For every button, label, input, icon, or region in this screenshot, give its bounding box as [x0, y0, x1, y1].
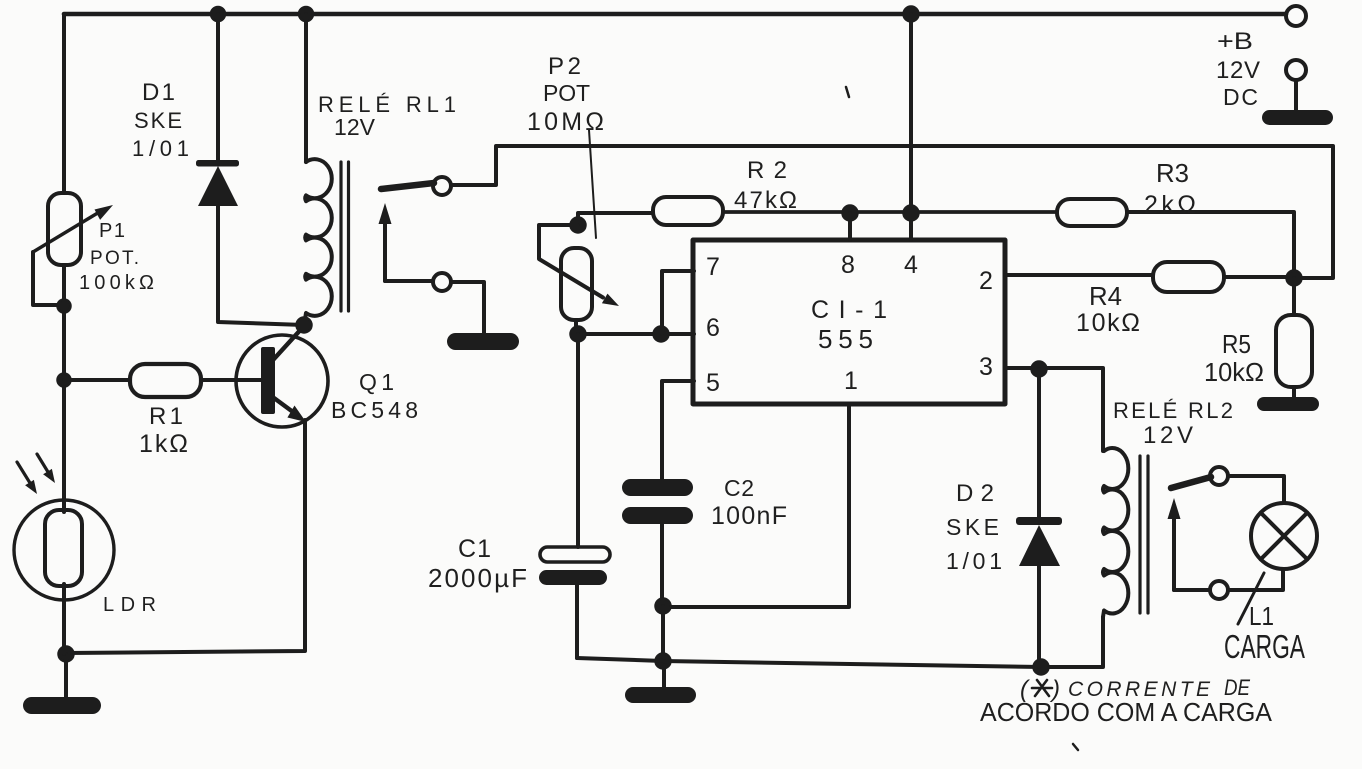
svg-text:2kΩ: 2kΩ: [1144, 191, 1196, 219]
wire P2 bottom to C1: [576, 334, 580, 547]
capacitor C1 top plate: [540, 547, 610, 562]
node emitter/LDR junction: [59, 647, 74, 662]
wire top +12V rail: [64, 12, 1286, 17]
wire RL1 arrow to lower contact: [385, 279, 433, 283]
wire R5 top lead: [1292, 278, 1296, 315]
capacitor C2 bottom plate: [622, 507, 693, 524]
ground R5 bar: [1257, 397, 1319, 411]
note line 1 CORRENTE DE: [1068, 675, 1250, 701]
svg-text:D2: D2: [956, 480, 994, 507]
note asterisk star: [1032, 680, 1052, 696]
svg-text:R4: R4: [1089, 281, 1122, 311]
wire pin3 to RL2: [1005, 368, 1103, 451]
relay RL1 upper contact circle: [433, 177, 451, 195]
node C2/pin1 junction: [656, 599, 671, 614]
svg-text:D1: D1: [142, 79, 175, 106]
wire RL2 lower contact to lamp bottom: [1228, 569, 1283, 590]
wire to center ground: [662, 661, 666, 689]
wire R2 left lead: [723, 210, 1057, 214]
wire left rail upper: [62, 14, 66, 193]
wire P2 bottom: [574, 320, 578, 334]
potentiometer P2 wiper arrow: [539, 225, 603, 298]
label L1 CARGA: [1224, 601, 1305, 665]
svg-text:RELÉ RL2: RELÉ RL2: [1113, 398, 1233, 423]
wire to left ground: [64, 654, 68, 698]
node pin4 junction: [904, 206, 919, 221]
svg-text:10kΩ: 10kΩ: [1204, 357, 1264, 387]
svg-text:555: 555: [818, 324, 873, 354]
svg-text:R2: R2: [747, 157, 787, 184]
wire pin1 down and left: [663, 404, 849, 607]
svg-text:P1: P1: [99, 220, 125, 242]
resistor R3: [1057, 199, 1127, 226]
label R2 value: [734, 157, 797, 214]
wire R1 to Q1 base: [201, 378, 262, 382]
svg-text:R5: R5: [1222, 329, 1251, 359]
label D2 value: [946, 480, 1002, 574]
svg-text:R3: R3: [1156, 158, 1189, 188]
stray apostrophe mark: [846, 87, 849, 97]
wire P2 top to R2: [578, 213, 653, 224]
wire pin2 to R4: [1005, 273, 1153, 277]
label R5 value: [1204, 329, 1264, 387]
svg-text:100nF: 100nF: [711, 502, 787, 530]
wire RL1 contact to right bus: [451, 146, 1333, 278]
svg-text:LDR: LDR: [103, 594, 156, 616]
diode D2 triangle: [1019, 525, 1060, 566]
svg-text:SKE: SKE: [134, 108, 182, 133]
svg-text:POT: POT: [543, 80, 590, 106]
wire R3 right to R5 node: [1127, 212, 1294, 278]
stray slash speck bottom right: [1073, 744, 1078, 750]
node top rail junction D1: [211, 7, 225, 21]
diode D1 lead from rail: [216, 14, 220, 162]
svg-text:6: 6: [706, 314, 720, 342]
svg-text:+B: +B: [1217, 28, 1253, 55]
label RELÉ RL1: [318, 92, 456, 140]
svg-text:4: 4: [904, 251, 918, 279]
relay RL2 actuation arrow: [1172, 516, 1176, 590]
label Q1 value: [331, 369, 418, 423]
node collector/D1/RL1 junction: [297, 318, 312, 333]
svg-text:1/01: 1/01: [132, 136, 189, 161]
svg-text:1/01: 1/01: [946, 548, 1002, 574]
ground RL1 bar: [447, 333, 519, 350]
wire P1 wiper return: [33, 252, 58, 305]
svg-text:C1: C1: [458, 535, 491, 563]
wire R1 left lead: [64, 378, 130, 382]
svg-text:12V: 12V: [1143, 422, 1193, 449]
relay RL2 upper contact circle: [1210, 467, 1228, 485]
ground center bar: [625, 687, 696, 703]
svg-text:1kΩ: 1kΩ: [139, 430, 188, 458]
svg-text:CI-1: CI-1: [811, 296, 887, 324]
svg-text:BC548: BC548: [331, 397, 418, 423]
relay RL1 coil: [304, 159, 332, 325]
wire pin4 vertical from top rail: [909, 14, 913, 240]
label C2 value: [711, 475, 787, 530]
svg-text:C2: C2: [724, 475, 754, 501]
diode D2 lead: [1037, 369, 1041, 519]
potentiometer P2 label leader line: [589, 130, 596, 238]
svg-text:SKE: SKE: [946, 514, 999, 540]
transistor Q1 collector stroke: [273, 326, 304, 360]
label P2 value: [527, 53, 604, 136]
lamp L1 cross: [1261, 513, 1308, 560]
resistor R5: [1276, 315, 1312, 387]
label R1 value: [139, 403, 188, 458]
svg-text:2000µF: 2000µF: [428, 563, 527, 593]
wire pin5 to C2: [662, 381, 694, 479]
note asterisk parentheses: [1020, 676, 1060, 703]
svg-text:10MΩ: 10MΩ: [527, 108, 604, 136]
relay RL1 coil lead: [304, 14, 308, 162]
svg-text:10kΩ: 10kΩ: [1076, 309, 1140, 337]
wire D1 anode down and right: [218, 206, 304, 325]
wire pin8 stub: [848, 213, 852, 240]
wire 0V terminal stub: [1294, 80, 1298, 111]
terminal 0V bar: [1262, 110, 1333, 125]
svg-text:L1: L1: [1249, 601, 1274, 631]
LDR circle: [14, 500, 114, 600]
node top rail junction RL1: [299, 7, 313, 21]
svg-text:ACORDO COM A CARGA: ACORDO COM A CARGA: [980, 697, 1273, 727]
wire pin7 loop: [662, 271, 694, 334]
svg-text:7: 7: [706, 253, 720, 281]
lamp L1 circle: [1251, 503, 1317, 569]
relay RL2 moving arm: [1171, 477, 1211, 488]
node pin3/D2 junction: [1032, 362, 1047, 377]
LDR element: [45, 510, 82, 586]
label +B 12V DC: [1216, 28, 1260, 110]
potentiometer P1 body: [48, 193, 81, 265]
node pin6/pin7 junction: [654, 327, 669, 342]
wire R4 right lead: [1224, 275, 1294, 279]
wire LDR bottom lead: [62, 584, 66, 654]
svg-text:1: 1: [844, 367, 858, 395]
svg-text:P2: P2: [548, 53, 581, 80]
wire pin6 horizontal: [578, 332, 694, 336]
svg-text:100kΩ: 100kΩ: [79, 272, 154, 294]
node R3/R4/R5 junction: [1287, 271, 1302, 286]
wire Q1 emitter down and across to LDR bottom: [66, 420, 305, 653]
transistor Q1 base bar: [261, 347, 275, 414]
label R3 value: [1144, 158, 1196, 219]
wire junction to bottom rail: [661, 606, 665, 661]
diode D1 triangle: [198, 166, 238, 206]
wire RL2 upper contact to lamp: [1228, 476, 1284, 503]
relay RL2 lower contact circle: [1210, 581, 1228, 599]
relay RL1 moving arm: [381, 183, 434, 189]
transistor Q1 circle: [236, 335, 328, 427]
relay RL1 lower contact circle: [433, 273, 451, 291]
capacitor C2 top plate: [622, 479, 693, 496]
wire left rail middle: [62, 265, 66, 512]
svg-text:8: 8: [841, 251, 855, 279]
wire bottom rail: [577, 617, 1103, 667]
potentiometer P1 wiper arrow: [33, 211, 101, 252]
diode D1 cathode bar: [196, 160, 239, 167]
lamp L1 label leader: [1238, 573, 1264, 624]
label R4 value: [1076, 281, 1140, 337]
node R1 branch junction: [58, 374, 71, 387]
resistor R4: [1153, 262, 1224, 292]
resistor R2: [653, 197, 723, 225]
wire C2 bottom: [660, 524, 664, 606]
node P2 top junction: [571, 218, 586, 233]
node P1 wiper junction: [58, 300, 71, 313]
node bottom rail ground junction: [656, 654, 671, 669]
svg-text:DC: DC: [1223, 84, 1258, 110]
node D2 bottom junction: [1034, 660, 1049, 675]
potentiometer P2 body: [561, 248, 592, 320]
svg-text:12V: 12V: [334, 114, 376, 140]
svg-text:CARGA: CARGA: [1224, 628, 1305, 665]
label P1 value: [79, 220, 154, 294]
relay RL2 core lines: [1138, 456, 1141, 613]
label RELÉ RL2: [1113, 398, 1233, 449]
svg-text:47kΩ: 47kΩ: [734, 187, 797, 214]
node top rail junction pin4: [904, 7, 919, 22]
node P2 bottom junction: [571, 327, 586, 342]
wire C1 bottom to rail: [575, 585, 579, 658]
capacitor C1 bottom plate: [539, 570, 607, 585]
wire RL1 lower contact to ground: [451, 282, 484, 334]
svg-text:POT.: POT.: [90, 248, 139, 269]
terminal +B circle: [1286, 6, 1306, 26]
label C1 value: [428, 535, 527, 593]
light arrow 1: [17, 462, 30, 483]
IC 555 CI-1 body: [693, 240, 1005, 404]
wire D2 anode down: [1037, 566, 1041, 667]
resistor R1: [130, 364, 201, 397]
transistor Q1 emitter stroke with arrow: [274, 398, 293, 412]
wire R5 bottom lead: [1292, 387, 1296, 398]
relay RL2 coil: [1103, 448, 1128, 617]
svg-text:R1: R1: [149, 403, 183, 430]
svg-text:5: 5: [706, 369, 720, 397]
wire RL2 arrow to lower contact: [1174, 588, 1210, 592]
svg-text:Q1: Q1: [359, 369, 394, 395]
svg-text:12V: 12V: [1216, 57, 1260, 84]
svg-text:2: 2: [979, 267, 993, 295]
node pin8 junction: [843, 206, 858, 221]
light arrow 2: [37, 454, 48, 472]
relay RL1 actuation arrow: [383, 221, 387, 281]
relay RL1 core lines: [339, 162, 342, 311]
terminal 0V circle: [1286, 60, 1306, 80]
diode D2 cathode bar: [1016, 517, 1062, 525]
label D1 value: [132, 79, 189, 161]
ground left bar: [23, 697, 101, 714]
label IC CI-1 555: [811, 296, 887, 354]
svg-text:3: 3: [979, 353, 993, 381]
